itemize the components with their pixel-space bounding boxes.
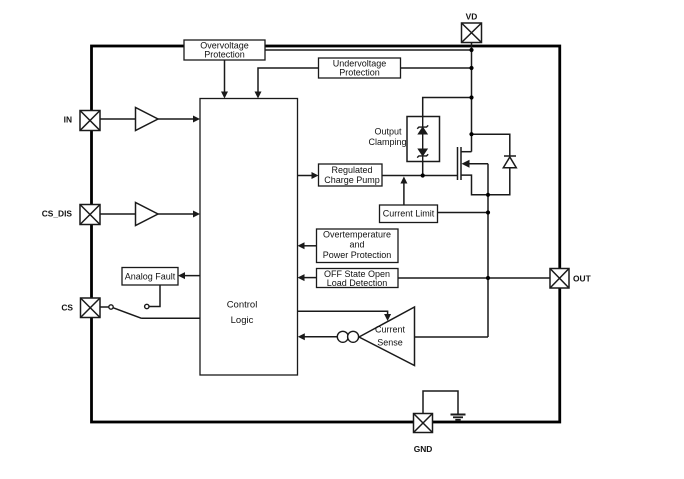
svg-text:Current Limit: Current Limit (383, 209, 435, 219)
svg-text:Regulated: Regulated (331, 165, 372, 175)
svg-text:Logic: Logic (231, 315, 254, 326)
svg-text:Current: Current (375, 325, 406, 335)
svg-text:Charge Pump: Charge Pump (324, 175, 380, 185)
svg-text:Analog Fault: Analog Fault (125, 272, 176, 282)
svg-text:VD: VD (466, 12, 478, 22)
svg-text:Output: Output (374, 127, 402, 137)
svg-text:Sense: Sense (377, 338, 403, 348)
svg-text:Overtemperature: Overtemperature (323, 230, 391, 240)
svg-text:GND: GND (414, 444, 433, 454)
svg-text:Protection: Protection (204, 50, 245, 60)
svg-text:IN: IN (64, 115, 72, 125)
svg-text:OUT: OUT (573, 274, 592, 284)
svg-text:Clamping: Clamping (368, 137, 406, 147)
svg-text:Protection: Protection (339, 68, 380, 78)
svg-text:and: and (349, 240, 364, 250)
svg-text:Power Protection: Power Protection (323, 250, 392, 260)
svg-text:Load Detection: Load Detection (327, 278, 388, 288)
svg-text:CS: CS (61, 303, 73, 313)
svg-text:CS_DIS: CS_DIS (42, 209, 73, 219)
svg-text:Control: Control (227, 300, 258, 311)
